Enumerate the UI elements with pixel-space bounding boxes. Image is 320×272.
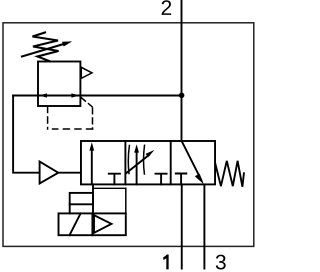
valve pos2 throttle arc right <box>143 145 146 174</box>
amplifier triangle <box>40 162 59 184</box>
pilot dashed line left vertical <box>47 107 49 130</box>
valve divider right <box>170 141 172 184</box>
solenoid pilot valve body <box>59 213 126 235</box>
regulator arrowhead right <box>71 93 80 97</box>
valve pos1 flow arrow up <box>91 147 93 184</box>
valve pos2 blocked port T <box>156 174 167 185</box>
valve pos2 adjustment arrow <box>126 155 149 173</box>
regulator flow line inside <box>38 95 80 97</box>
wire node to regulator inlet left <box>13 95 38 97</box>
pilot dashed line diagonal <box>81 98 92 107</box>
wire regulator output to node <box>80 95 181 97</box>
enclosure border <box>3 23 254 247</box>
wire port 1 vertical <box>181 184 183 268</box>
valve pos3 blocked port T <box>176 174 187 185</box>
regulator R1 body <box>38 62 80 107</box>
port label 2 <box>162 0 172 15</box>
regulator relief triangle <box>81 67 92 78</box>
wire pilot valve feed vertical <box>92 184 94 213</box>
valve V1 body <box>81 141 215 184</box>
solenoid amplifier triangle <box>94 215 112 233</box>
port label 1 <box>163 255 168 270</box>
wire pilot branch horizontal <box>93 187 126 189</box>
port label 3 <box>216 255 226 270</box>
wire port 3 vertical <box>203 184 205 268</box>
regulator spring <box>33 33 59 62</box>
wire left feedback vertical <box>13 96 39 173</box>
manual override stem <box>69 204 71 213</box>
regulator adjustment arrow <box>22 43 66 56</box>
valve pos2 throttle arrow up <box>136 149 138 184</box>
valve pos3 exhaust diagonal <box>182 141 201 180</box>
pilot dashed line right vertical <box>92 108 94 129</box>
wire pilot branch right vertical <box>125 188 127 213</box>
pilot dashed line bottom horizontal <box>53 128 93 130</box>
valve pos2 throttle arc left <box>128 146 129 174</box>
solenoid coil slash <box>70 213 81 235</box>
valve return spring <box>215 161 244 187</box>
manual override button <box>70 193 93 204</box>
wire amplifier to valve pilot <box>58 172 81 174</box>
regulator arrowhead left <box>38 93 47 97</box>
valve pos1 blocked port T <box>109 174 120 185</box>
node junction dot <box>179 93 185 99</box>
solenoid divider <box>91 213 93 235</box>
wire port 2 vertical <box>181 0 183 141</box>
valve divider left <box>124 141 126 184</box>
